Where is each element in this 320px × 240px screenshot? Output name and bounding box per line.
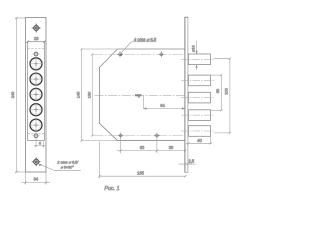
dim 63 and 36 (bottom holes) xyxy=(117,138,187,154)
bolt 5 centerline xyxy=(181,130,214,132)
bolt 3 centerline xyxy=(181,97,214,99)
lock pin circle 2 xyxy=(29,72,44,87)
svg-text:63: 63 xyxy=(140,145,145,150)
keyhole centerline xyxy=(95,94,186,96)
countersunk hole bottom xyxy=(32,157,41,166)
lock pin circle 5 xyxy=(29,118,44,133)
bolt 5 xyxy=(188,126,210,137)
svg-text:Рис. 1: Рис. 1 xyxy=(104,186,119,192)
small hole top xyxy=(32,50,39,57)
hole centerline bottom xyxy=(92,135,185,137)
dim 135 (body width, bottom) xyxy=(98,142,186,179)
leader note 4 holes xyxy=(131,41,156,43)
dim 145 (body height) xyxy=(80,48,117,142)
bolt 2 centerline xyxy=(181,79,214,81)
dim 2,5 (faceplate thickness) xyxy=(179,163,196,165)
left view: hidden edge bottom (dashed) xyxy=(28,133,45,135)
keyhole xyxy=(135,94,142,96)
dim d18 (bolt diameter) xyxy=(196,41,198,71)
left view: faceplate outline xyxy=(26,18,47,173)
svg-text:40: 40 xyxy=(197,138,202,143)
svg-text:36: 36 xyxy=(169,145,174,150)
bolt 1 centerline xyxy=(181,58,214,60)
dim 64 (keyhole to faceplate) xyxy=(143,95,185,108)
svg-text:145: 145 xyxy=(76,92,81,99)
svg-text:26: 26 xyxy=(34,36,39,41)
lock pin circle 4 xyxy=(29,102,44,117)
dim 58 (bolt spacing) xyxy=(211,74,223,112)
dim 34 (plate width) xyxy=(22,172,51,185)
bolt 2 xyxy=(188,75,210,86)
bolt 1 xyxy=(188,54,210,65)
body hole marker top-left xyxy=(117,51,123,57)
body hole marker top-right xyxy=(158,51,164,57)
countersunk hole top (2 circles + cross) xyxy=(32,23,41,32)
body hole marker bottom-right xyxy=(154,133,160,139)
leader note 2 holes xyxy=(39,164,81,170)
svg-text:2,5: 2,5 xyxy=(188,158,194,163)
svg-text:64: 64 xyxy=(160,103,165,108)
bolt 4 centerline xyxy=(181,114,214,116)
svg-text:249: 249 xyxy=(10,92,15,99)
svg-text:135: 135 xyxy=(137,171,145,176)
lock pin circle 1 xyxy=(29,56,44,71)
body hole marker bottom-left xyxy=(118,133,124,139)
dim 100 (bolt span) xyxy=(214,58,231,135)
dim 40 (bolt throw) xyxy=(186,137,212,145)
svg-text:58: 58 xyxy=(215,89,220,93)
svg-text:100: 100 xyxy=(224,87,229,94)
dim 6 (hole offset) xyxy=(34,139,46,148)
svg-text:6: 6 xyxy=(39,141,42,146)
left view: cover plate inner rect xyxy=(28,42,45,141)
svg-text:2 отв ⌀ 6,5/: 2 отв ⌀ 6,5/ xyxy=(56,161,79,165)
bolt 4 xyxy=(188,110,210,121)
hole centerline top xyxy=(92,53,185,55)
left view: hidden edge top (dashed) xyxy=(28,48,45,50)
svg-text:130: 130 xyxy=(86,91,91,98)
bolt 3 xyxy=(188,92,210,103)
lock pin circle 3 xyxy=(29,87,44,102)
faceplate side view xyxy=(184,17,188,172)
small hole bottom xyxy=(32,132,39,139)
svg-text:⌀ 9×90°: ⌀ 9×90° xyxy=(61,166,75,170)
svg-text:⌀18: ⌀18 xyxy=(191,45,196,52)
dim ticks inner rect top xyxy=(26,41,28,43)
svg-text:4 отв ⌀ 6,5: 4 отв ⌀ 6,5 xyxy=(134,37,157,42)
body outline (side view) xyxy=(99,49,185,141)
dim 249 (plate height) xyxy=(15,17,26,173)
dim 130 (hole centers) xyxy=(91,53,93,137)
svg-text:34: 34 xyxy=(33,177,38,182)
